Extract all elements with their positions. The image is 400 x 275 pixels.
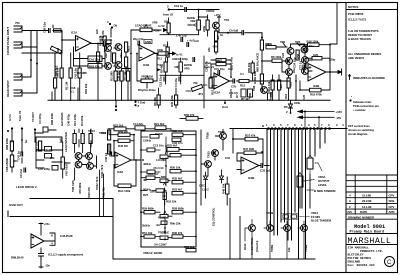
svg-text:R13: R13 [284, 94, 288, 99]
resistor R16 470k [310, 88, 322, 92]
pot VR2 [197, 20, 201, 30]
wire rear jacks vertical [22, 31, 37, 94]
svg-text:100k: 100k [157, 48, 164, 52]
op-amp IC1A [71, 31, 91, 52]
svg-text:BLGE TANDEM: BLGE TANDEM [311, 219, 332, 223]
svg-text:C12 22u: C12 22u [159, 76, 163, 87]
svg-text:REAR INPUT: REAR INPUT [6, 80, 10, 97]
wire tr cluster [75, 130, 97, 180]
zener D6 [284, 100, 293, 114]
resistor R4k7b [215, 42, 218, 52]
transistor TRf3 [301, 225, 308, 232]
svg-text:APR.: APR. [389, 210, 396, 214]
capacitor C33 [261, 164, 263, 168]
svg-text:R42 1M: R42 1M [118, 130, 128, 134]
svg-text:R4 470k: R4 470k [80, 115, 84, 126]
svg-text:100k: 100k [294, 101, 301, 105]
wire gnd pins [116, 100, 136, 106]
resistor R3 [114, 71, 117, 81]
capacitor C41 [78, 68, 81, 78]
svg-text:47n C14: 47n C14 [153, 166, 164, 170]
wire jack1 to C38 [22, 30, 49, 32]
pot VR8 [10, 155, 13, 167]
svg-text:R3 1M0: R3 1M0 [110, 71, 114, 81]
svg-text:+15V: +15V [336, 110, 343, 114]
svg-text:R7: R7 [235, 94, 239, 98]
resistor R48 [226, 184, 230, 194]
svg-text:IC2B OUT: IC2B OUT [9, 203, 23, 207]
resistor R5 100k [266, 46, 276, 49]
svg-text:NOTES: NOTES [348, 5, 358, 9]
resistor R52k [167, 23, 170, 33]
capacitor C32 [172, 138, 181, 141]
svg-text:VR8-12: B100K: VR8-12: B100K [143, 251, 163, 255]
resistor R30 [175, 95, 178, 105]
capacitor C5 [241, 89, 246, 97]
pin dot 5 [168, 8, 170, 10]
wire R65 [54, 53, 56, 100]
coupling network cluster [153, 56, 215, 108]
transistor TRf0 [249, 225, 256, 232]
capacitor C20 [305, 48, 307, 52]
svg-text:47k: 47k [101, 30, 105, 35]
opamp IC2A group [210, 57, 290, 94]
svg-text:R2 1M8: R2 1M8 [77, 71, 87, 75]
svg-text:15.5.89: 15.5.89 [362, 194, 371, 198]
wire R55 [252, 61, 254, 81]
svg-text:C21: C21 [289, 82, 293, 87]
pin dot left edge [7, 130, 9, 132]
svg-text:C10 220p: C10 220p [38, 167, 50, 171]
svg-text:IC2B: IC2B [313, 84, 319, 88]
capacitor C39 [120, 71, 123, 81]
connector bus wire [230, 128, 347, 130]
resistor R62b series [54, 29, 62, 32]
pot EQ4 [160, 236, 168, 239]
svg-text:C27 0.1: C27 0.1 [299, 60, 303, 70]
svg-text:R53 4k7: R53 4k7 [172, 188, 183, 192]
capacitor C4u7 [187, 43, 189, 47]
wire fet cluster [105, 40, 122, 66]
row of labels above ground bus [229, 89, 239, 98]
pot VR1 [141, 79, 153, 83]
transistor TR13b [86, 153, 93, 160]
svg-text:TR10 27k: TR10 27k [87, 187, 91, 199]
capacitor C41b [21, 152, 23, 156]
svg-text:IC3A: IC3A [117, 170, 124, 174]
+15V rail [298, 110, 342, 114]
svg-text:DRAWING NUMBER: DRAWING NUMBER [348, 215, 375, 219]
svg-text:VR1 A1M: VR1 A1M [141, 75, 153, 79]
svg-text:R62: R62 [56, 48, 60, 53]
svg-text:C25: C25 [302, 95, 306, 100]
wire pot to V2 [131, 29, 167, 32]
svg-text:20p C4a: 20p C4a [133, 37, 144, 41]
svg-text:1u0 MARK: 1u0 MARK [60, 111, 64, 126]
svg-text:R21 2k2: R21 2k2 [154, 122, 165, 126]
capacitor C13 [147, 148, 155, 152]
gnd pin dot 9 [115, 105, 117, 107]
pot VR9 [307, 158, 313, 169]
svg-text:C13 10n: C13 10n [153, 144, 164, 148]
pot small [268, 93, 271, 100]
pot P2 [291, 215, 297, 218]
wire IC2A out right [249, 80, 290, 82]
resistor R22 2k2 [114, 127, 126, 131]
connector dots row [267, 127, 331, 130]
wire gnd drops [52, 88, 78, 100]
pot EQ3 [160, 215, 168, 218]
svg-text:470 390k: 470 390k [78, 182, 82, 194]
wire tr16 group [201, 130, 223, 206]
resistor R4 [127, 71, 130, 81]
svg-text:C38 0.1u: C38 0.1u [43, 22, 47, 33]
node dot B [36, 63, 38, 65]
svg-text:LEAD MASTER: LEAD MASTER [64, 131, 68, 152]
node dot TR1out [227, 32, 229, 34]
resistor fet mid [113, 53, 116, 63]
capacitor C11 22u [135, 126, 145, 130]
svg-text:& BACK TRACKS: & BACK TRACKS [348, 37, 371, 41]
wire eq input row [108, 129, 171, 131]
svg-text:Model 9001: Model 9001 [354, 224, 385, 230]
node dots [165, 74, 167, 76]
svg-text:Gnd: Gnd [222, 105, 228, 109]
wire VR1 loop [137, 54, 157, 89]
capacitor C3 [43, 127, 48, 132]
svg-text:R14 31k: R14 31k [267, 81, 271, 92]
resistor R1M1 [312, 57, 322, 60]
svg-text:4k7: 4k7 [143, 178, 148, 182]
jack J3 [14, 74, 22, 80]
capacitor Ch1 22u [88, 56, 102, 62]
svg-text:R9b 22k: R9b 22k [170, 222, 181, 226]
resistor R1k [215, 31, 218, 41]
wire drops to bus [116, 68, 128, 100]
capacitor Ch2 .22u [104, 42, 106, 46]
wire +15v [39, 223, 43, 235]
wire IC1A out [91, 43, 111, 45]
resistor R21 [155, 126, 166, 130]
pot arrows EQ [163, 151, 167, 233]
EQ wiper bus [163, 137, 167, 240]
svg-text:TR1B: TR1B [266, 211, 273, 215]
svg-text:TREBLE: TREBLE [158, 231, 169, 235]
svg-text:470 10k: 470 10k [123, 71, 127, 81]
svg-text:R17 330: R17 330 [35, 141, 39, 152]
pot BASS [150, 135, 159, 139]
wire r50 [180, 117, 203, 119]
wire R18 [300, 45, 330, 63]
wire x204 vertical [159, 56, 204, 108]
capacitor C17 [161, 221, 167, 224]
bottom bus wire [113, 258, 315, 260]
transistor TR1 [213, 22, 220, 29]
pin dot 3 [109, 23, 111, 25]
node dot mid [261, 37, 263, 39]
capacitor C18 [193, 58, 195, 62]
svg-text:R27: R27 [143, 193, 148, 197]
svg-text:C9 2n2: C9 2n2 [19, 169, 23, 178]
capacitor C21 [287, 78, 290, 88]
svg-text:VR8 A500k: VR8 A500k [5, 158, 9, 172]
svg-text:IC1,2,3 supply arrangement: IC1,2,3 supply arrangement [48, 253, 83, 257]
transistor TR11 [87, 163, 94, 170]
svg-text:LEVEL: LEVEL [318, 183, 327, 187]
capacitor C27 [303, 65, 305, 69]
wire rails to bus [305, 112, 319, 129]
pot EQ2 [160, 179, 168, 182]
svg-text:LO MID: LO MID [156, 158, 166, 162]
transistor TR frontA [105, 45, 112, 52]
svg-text:+ number.: + number. [353, 108, 366, 112]
capacitor C12 [164, 77, 166, 81]
svg-text:10k C5: 10k C5 [229, 89, 233, 98]
svg-text:120Hz: 120Hz [143, 139, 152, 143]
capacitor C10 [52, 166, 58, 171]
pin number labels [266, 123, 344, 127]
resistor MU1 [125, 42, 128, 52]
svg-text:R64 10k: R64 10k [84, 83, 88, 94]
svg-text:R68 100k: R68 100k [5, 138, 9, 150]
capacitor C30 [110, 152, 112, 156]
wire EQ rails [141, 131, 196, 247]
wire pin3 down [110, 29, 112, 38]
transistor TR15 [212, 150, 219, 157]
capacitor C4 [179, 77, 181, 81]
svg-text:C: C [387, 260, 392, 266]
resistor Rmid1 [260, 40, 263, 50]
svg-text:from V3: from V3 [18, 110, 22, 121]
capacitor C19 [185, 8, 187, 12]
resistor R9 [164, 62, 167, 72]
svg-text:10k: 10k [172, 57, 177, 61]
resistor R53 [172, 192, 183, 195]
gnd pin dot 8 [134, 104, 136, 106]
right column divider [345, 3, 347, 273]
svg-text:IC1,2,3: TL072: IC1,2,3: TL072 [348, 18, 367, 22]
svg-text:R28 680k: R28 680k [172, 207, 184, 211]
svg-text:R33 1k5: R33 1k5 [184, 245, 195, 249]
svg-text:C4 47u: C4 47u [174, 78, 178, 87]
svg-text:C3 470p: C3 470p [38, 113, 42, 124]
svg-text:Ch1 22u: Ch1 22u [89, 58, 100, 62]
svg-text:ARE 1N4007: ARE 1N4007 [348, 56, 365, 60]
wire r64 [97, 44, 99, 101]
transistor TRf1 [267, 225, 274, 232]
pot VR4A [297, 176, 303, 187]
svg-text:R16 470k: R16 470k [310, 93, 322, 97]
svg-text:220p: 220p [329, 58, 336, 62]
diode D8 [220, 170, 224, 183]
svg-text:VR2: VR2 [190, 19, 196, 23]
svg-text:-15v: -15v [45, 264, 51, 268]
resistor R57 47k [245, 137, 258, 141]
capacitor C9 [24, 168, 26, 172]
resistor R33 [186, 249, 196, 252]
resistor R62 [50, 46, 61, 54]
node dot A [30, 59, 32, 61]
svg-text:R52 22k: R52 22k [166, 200, 177, 204]
resistor R28 680k [172, 211, 183, 214]
wire vr4a down [300, 174, 310, 208]
resistor fb1 IC2A [216, 59, 226, 62]
pot tandem dashed box [281, 214, 298, 220]
model box [346, 224, 398, 267]
resistor R33k [45, 154, 52, 159]
svg-text:TR11 717k: TR11 717k [100, 164, 104, 178]
svg-text:VR3: VR3 [184, 67, 190, 71]
svg-text:23-2-89: 23-2-89 [362, 199, 372, 203]
wire VR8 [12, 140, 22, 172]
svg-text:A1M: A1M [154, 29, 160, 33]
pot EQ1 [160, 155, 168, 158]
svg-text:1u0: 1u0 [59, 138, 63, 143]
capacitor C16 [156, 189, 164, 192]
svg-text:R57 47k: R57 47k [245, 134, 256, 138]
resistor R52 [163, 192, 166, 200]
wire caps [39, 248, 43, 268]
svg-text:2k5Hz: 2k5Hz [142, 224, 151, 228]
svg-text:RA1 100k: RA1 100k [118, 189, 131, 193]
resistor MU2 [125, 57, 128, 67]
svg-text:TR1B: TR1B [304, 245, 308, 252]
jack J4 [14, 90, 22, 96]
wire IC1B out [155, 53, 158, 55]
svg-text:R60: R60 [248, 93, 252, 98]
svg-text:C15 4n7: C15 4n7 [148, 172, 159, 176]
resistor diagonal 70k [191, 84, 202, 91]
-15V rail [298, 116, 341, 120]
svg-text:TR9: TR9 [101, 131, 107, 135]
svg-text:4k5: 4k5 [279, 84, 283, 89]
op-amp IC2A [214, 73, 230, 89]
svg-text:TR16: TR16 [206, 132, 210, 139]
svg-text:D5: D5 [114, 24, 118, 28]
transistor TR frontD [115, 62, 122, 69]
capacitor C14 [147, 170, 155, 174]
svg-text:R68 100k: R68 100k [50, 113, 54, 125]
svg-text:TR12 717k: TR12 717k [95, 176, 99, 190]
pot B220k [179, 62, 182, 72]
wire IC2B out line [8, 199, 113, 260]
resistor R29 680k [144, 211, 155, 214]
transistor TR2c [286, 69, 293, 76]
svg-text:0.1: 0.1 [70, 90, 74, 94]
svg-text:1n0: 1n0 [194, 39, 199, 43]
svg-text:V3 OUT: V3 OUT [31, 112, 35, 122]
capacitor C7b [233, 79, 235, 83]
transistor TR12 [75, 153, 82, 160]
gnd pin dot 7 [134, 101, 136, 103]
resistor Rx [209, 78, 212, 88]
wire second row [12, 130, 56, 143]
svg-text:C28 10u: C28 10u [205, 61, 209, 72]
supply subcircuit [11, 222, 83, 268]
svg-text:TR13: TR13 [88, 129, 95, 133]
svg-text:C31: C31 [225, 156, 230, 160]
resistor R50b [170, 170, 181, 173]
resistor R11 100k [158, 52, 168, 55]
transistor TR4b [302, 57, 309, 64]
svg-text:TR5B: TR5B [270, 245, 274, 252]
wire IC2A in/out [210, 60, 239, 81]
svg-text:FRONT PANEL INPUT: FRONT PANEL INPUT [6, 27, 10, 55]
svg-text:1k: 1k [220, 33, 224, 37]
svg-text:JP1: JP1 [198, 92, 203, 96]
resistor Rt1 [73, 134, 76, 144]
svg-text:C39 1u5: C39 1u5 [117, 70, 121, 81]
svg-text:R12: R12 [240, 84, 245, 88]
arrow to V4 [338, 69, 342, 75]
svg-text:1M1: 1M1 [313, 53, 319, 57]
pin dot V3out [34, 128, 36, 130]
svg-text:4M7: 4M7 [217, 59, 223, 63]
resistor R18 [308, 43, 320, 46]
resistor R8 [157, 95, 160, 105]
svg-text:0.1: 0.1 [240, 72, 244, 76]
svg-text:GND: GND [145, 40, 151, 44]
resistor Rt3 [89, 134, 92, 144]
svg-text:R8 10k: R8 10k [153, 97, 157, 106]
svg-text:400Hz: 400Hz [143, 162, 152, 166]
resistor R10 [103, 36, 106, 46]
capacitor C15 [146, 176, 155, 179]
svg-text:to V1: to V1 [176, 53, 183, 57]
svg-text:B: B [262, 124, 264, 128]
resistor Rmid2 [260, 74, 263, 84]
svg-text:Fax: 886964.304: Fax: 886964.304 [348, 264, 375, 267]
svg-text:R29 680k: R29 680k [142, 207, 154, 211]
tone network ch2 [35, 137, 63, 171]
resistor R14 [271, 80, 274, 90]
EQ ladder [141, 129, 196, 255]
svg-text:22k: 22k [207, 47, 211, 52]
svg-text:INDICATES CLOCKWISE: INDICATES CLOCKWISE [353, 76, 385, 80]
svg-text:220k: 220k [202, 25, 206, 32]
transistor TR frontB [115, 44, 122, 51]
svg-text:R22 2k2: R22 2k2 [113, 123, 124, 127]
jack J2 [14, 42, 22, 48]
transistor TR16 [205, 161, 212, 168]
resistor R43 1M [118, 139, 130, 142]
resistor R24 top [172, 133, 183, 136]
ground bus wire [48, 99, 330, 101]
svg-text:-15V: -15V [336, 116, 342, 120]
svg-text:R11: R11 [157, 57, 162, 61]
svg-text:PCB: IMP63: PCB: IMP63 [348, 12, 364, 16]
filler labels dense band [77, 30, 306, 100]
wire R16 [300, 72, 330, 90]
resistor R220k [206, 20, 209, 30]
svg-text:R56: R56 [296, 54, 300, 59]
svg-text:R43 1M: R43 1M [118, 144, 128, 148]
svg-text:R48 10k: R48 10k [222, 183, 226, 194]
wire r12 [167, 42, 169, 62]
resistor R15 [278, 80, 281, 90]
svg-text:MID: MID [161, 175, 166, 179]
svg-text:R30 220k: R30 220k [170, 95, 174, 107]
resistor Rv2 [108, 144, 111, 154]
svg-text:22u: 22u [119, 53, 123, 58]
svg-text:R9 4k7: R9 4k7 [160, 64, 164, 73]
capacitor C4a [138, 41, 140, 45]
svg-text:VR6: VR6 [152, 21, 158, 25]
svg-text:EQ CONTROL: EQ CONTROL [212, 207, 216, 226]
wire tone frame [36, 137, 62, 168]
wire eq control verticals [230, 199, 240, 259]
svg-text:R113: R113 [243, 243, 247, 250]
